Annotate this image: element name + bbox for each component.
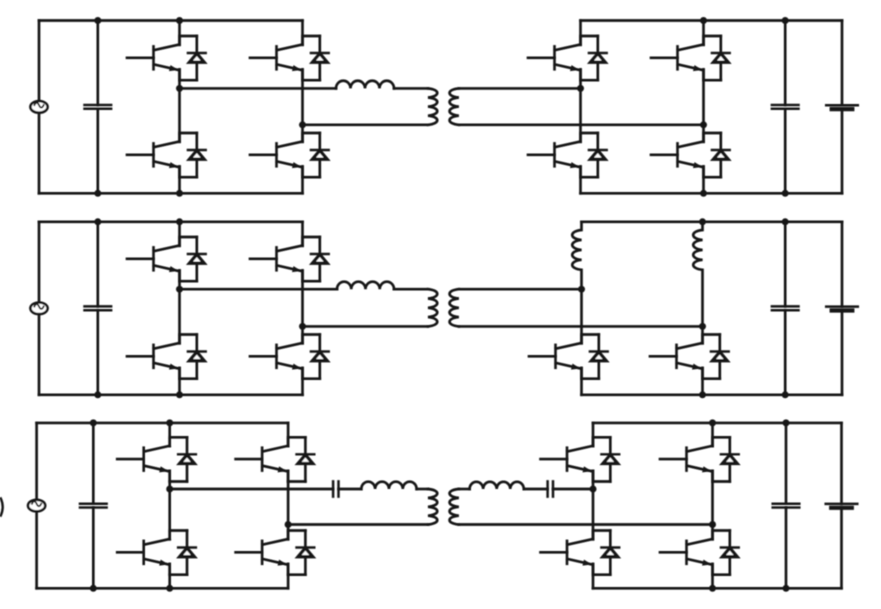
diode D8	[704, 133, 730, 177]
junction row2 left bridge leg A / bottom rail	[176, 391, 183, 398]
inductor L1	[336, 81, 394, 89]
junction row2 right leg A tap	[578, 286, 585, 293]
junction row1 left bridge leg A / bottom rail	[176, 190, 183, 197]
wire row2 output cap top lead	[784, 222, 787, 307]
diode D2	[180, 133, 206, 177]
junction row1 right leg B tap	[700, 121, 707, 128]
wire row1 right bridge leg A leg upper	[579, 21, 582, 45]
igbt Q9	[127, 239, 180, 281]
transformer T3 primary winding	[428, 489, 437, 525]
wire row2 primary lower link	[303, 325, 429, 328]
junction row2 leg A midpoint tap	[176, 286, 183, 293]
junction row2 right leg B / top rail	[699, 218, 706, 225]
transformer T2 primary winding	[428, 289, 437, 326]
wire row3 series cap to inductor	[339, 488, 362, 491]
wire row1 secondary upper link	[459, 87, 581, 90]
wire row3 output cap bottom lead	[785, 508, 788, 589]
transformer T1 secondary winding	[450, 88, 459, 124]
junction row1 output cap / bottom rail	[782, 190, 789, 197]
wire row1 left bridge leg A leg upper	[178, 21, 181, 45]
junction row3 right leg B tap	[709, 521, 716, 528]
wire row2 right leg A to lower switch	[580, 289, 583, 343]
junction row2 right leg B / bottom rail	[699, 391, 706, 398]
igbt Q22	[541, 533, 594, 575]
diode D6	[581, 133, 607, 177]
wire row2 right top rail	[582, 220, 843, 223]
igbt Q19	[236, 439, 289, 481]
ac/dc source V3	[28, 500, 45, 512]
wire row3 inductor to series cap	[524, 488, 548, 491]
junction row2 output cap / top rail	[782, 218, 789, 225]
wire row1 right bridge leg A leg middle	[579, 70, 582, 142]
wire row1 left bridge leg B leg lower	[301, 167, 304, 194]
junction row3 input cap / top rail	[90, 419, 97, 426]
wire row3 series cap to bridge	[553, 488, 593, 491]
junction row2 input cap / bottom rail	[94, 391, 101, 398]
junction row3 leg A midpoint tap	[166, 486, 173, 493]
diode D9	[180, 237, 206, 281]
wire row3 left bridge leg A leg middle	[168, 471, 171, 540]
wire row1 battery top lead	[841, 21, 844, 106]
junction row1 output cap / top rail	[782, 17, 789, 24]
diode D23	[713, 437, 739, 481]
wire row3 right bridge leg B leg upper	[711, 423, 714, 446]
wire row3 inductor to primary winding	[417, 488, 428, 491]
wire row2 secondary lower link	[459, 325, 703, 328]
igbt Q20	[236, 533, 289, 575]
igbt Q13	[529, 337, 582, 379]
wire row3 source bottom lead	[35, 511, 38, 588]
wire row2 output cap bottom lead	[784, 310, 787, 395]
diode D18	[170, 531, 196, 575]
diode D20	[288, 531, 314, 575]
junction row3 right leg B / bottom rail	[709, 585, 716, 592]
battery B3	[826, 504, 858, 508]
wire row1 primary lower link	[303, 123, 429, 126]
wire row1 input cap top lead	[96, 21, 99, 106]
wire row1 source bottom lead	[38, 113, 41, 194]
wire row3 left bridge leg A leg upper	[168, 423, 171, 446]
wire row1 inductor to primary winding	[394, 87, 428, 90]
wire row3 source top lead	[35, 423, 38, 500]
igbt Q11	[250, 239, 303, 281]
wire row2 right leg B to lower switch	[701, 326, 704, 343]
wire row3 right bridge leg B leg lower	[711, 564, 714, 588]
diode D22	[593, 531, 619, 575]
igbt Q12	[250, 337, 303, 379]
junction row3 output cap / bottom rail	[783, 585, 790, 592]
wire row3 input cap bottom lead	[92, 508, 95, 589]
igbt Q18	[117, 533, 170, 575]
wire row3 left bottom rail	[37, 587, 289, 590]
wire row3 right bridge leg A leg upper	[592, 423, 595, 446]
junction row1 input cap / bottom rail	[94, 190, 101, 197]
wire row1 right bridge leg B leg upper	[702, 21, 705, 45]
wire row3 right bridge leg A leg lower	[592, 564, 595, 588]
wire row2 left top rail	[39, 220, 303, 223]
junction row2 leg B midpoint tap	[299, 323, 306, 330]
diode D19	[288, 437, 314, 481]
diode D3	[303, 36, 329, 80]
inductor L3b	[470, 482, 524, 489]
figure label fragment ')'	[1, 499, 3, 516]
wire row1 right bridge leg A leg lower	[579, 167, 582, 194]
wire row1 left bridge leg B leg upper	[301, 21, 304, 45]
igbt Q3	[250, 38, 303, 80]
input capacitor C1	[85, 105, 112, 109]
junction row3 left bridge leg A / bottom rail	[166, 585, 173, 592]
wire row2 left bridge leg B leg middle	[301, 271, 304, 344]
wire row3 right bridge leg B leg middle	[711, 471, 714, 540]
ac/dc source V2	[30, 303, 47, 315]
transformer T1 primary winding	[428, 88, 437, 124]
wire row3 right bridge leg A leg middle	[592, 471, 595, 540]
igbt Q4	[250, 135, 303, 177]
wire row1 right bridge leg B leg lower	[702, 167, 705, 194]
wire row3 left top rail	[37, 422, 289, 425]
wire row3 battery bottom lead	[840, 508, 843, 589]
junction row1 right leg B / top rail	[700, 17, 707, 24]
junction row3 right leg B / top rail	[709, 419, 716, 426]
input capacitor C3	[80, 504, 107, 508]
igbt Q24	[660, 533, 713, 575]
wire row2 left bridge leg B leg upper	[301, 222, 304, 246]
diode D7	[704, 36, 730, 80]
wire row2 inductor to primary winding	[394, 288, 428, 291]
igbt Q10	[127, 337, 180, 379]
output capacitor Co2	[772, 306, 799, 310]
inductor L2	[337, 282, 394, 290]
diode D11	[303, 237, 329, 281]
wire row1 right bridge leg B leg middle	[702, 70, 705, 142]
battery B2	[826, 307, 858, 311]
wire row2 left bridge leg A leg lower	[178, 368, 181, 395]
wire row3 left bridge leg B leg upper	[287, 423, 290, 446]
igbt Q1	[127, 38, 180, 80]
junction row2 output cap / bottom rail	[782, 391, 789, 398]
wire row2 primary upper link	[180, 288, 338, 291]
junction row1 leg A midpoint tap	[176, 85, 183, 92]
wire row1 output cap top lead	[784, 21, 787, 106]
wire row2 battery top lead	[841, 222, 844, 307]
wire row1 secondary lower link	[459, 123, 704, 126]
inductor L3a	[361, 482, 416, 489]
transformer T2 secondary winding	[450, 289, 459, 326]
igbt Q23	[660, 439, 713, 481]
wire row2 right bottom rail	[582, 393, 843, 396]
diode D12	[303, 335, 329, 379]
series capacitor Cs3a	[333, 481, 338, 496]
wire row3 left bridge leg A leg lower	[168, 564, 171, 588]
igbt Q7	[651, 38, 704, 80]
igbt Q14	[650, 337, 703, 379]
junction row2 left bridge leg A / top rail	[176, 218, 183, 225]
junction row2 right leg B tap	[699, 323, 706, 330]
wire row3 secondary lower link	[459, 523, 713, 526]
junction row3 left bridge leg A / top rail	[166, 419, 173, 426]
igbt Q21	[541, 439, 594, 481]
diode D21	[593, 437, 619, 481]
wire row3 primary lower link	[288, 523, 428, 526]
diode D24	[713, 531, 739, 575]
wire row1 primary upper link	[180, 87, 337, 90]
diode D17	[170, 437, 196, 481]
junction row1 right leg B / bottom rail	[700, 190, 707, 197]
wire row1 right top rail	[581, 19, 843, 22]
wire row3 primary upper link	[170, 488, 333, 491]
wire row2 input cap bottom lead	[96, 310, 99, 395]
wire row2 secondary upper link	[459, 288, 582, 291]
igbt Q2	[127, 135, 180, 177]
wire row2 input cap top lead	[96, 222, 99, 307]
junction row1 leg B midpoint tap	[299, 121, 306, 128]
igbt Q5	[528, 38, 581, 80]
wire row3 left bridge leg B leg middle	[287, 471, 290, 540]
igbt Q17	[117, 439, 170, 481]
wire row2 right leg B emitter to rail	[701, 368, 704, 395]
diode D10	[180, 335, 206, 379]
wire row2 source bottom lead	[38, 314, 41, 395]
battery B1	[826, 105, 858, 109]
junction row1 left bridge leg A / top rail	[176, 17, 183, 24]
wire row1 left top rail	[39, 19, 303, 22]
igbt Q6	[528, 135, 581, 177]
wire row3 output cap top lead	[785, 423, 788, 504]
wire row3 right top rail	[593, 422, 842, 425]
junction row1 input cap / top rail	[94, 17, 101, 24]
output capacitor Co3	[773, 504, 800, 508]
wire row2 left bridge leg A leg middle	[178, 271, 181, 344]
wire row1 left bottom rail	[39, 192, 303, 195]
inductor L2b (leg B)	[693, 222, 702, 327]
junction row1 right leg A tap	[577, 85, 584, 92]
wire row3 secondary upper link	[459, 488, 470, 491]
junction row2 input cap / top rail	[94, 218, 101, 225]
diode D14	[703, 335, 729, 379]
wire row3 left bridge leg B leg lower	[287, 564, 290, 588]
diode D13	[582, 335, 608, 379]
wire row2 left bridge leg B leg lower	[301, 368, 304, 395]
diode D4	[303, 133, 329, 177]
wire row3 right bottom rail	[593, 587, 842, 590]
series capacitor Cs3b	[548, 481, 553, 496]
wire row1 left bridge leg A leg lower	[178, 167, 181, 194]
wire row3 battery top lead	[840, 423, 843, 504]
junction row3 input cap / bottom rail	[90, 585, 97, 592]
junction row3 output cap / top rail	[783, 419, 790, 426]
wire row3 input cap top lead	[92, 423, 95, 504]
wire row2 source top lead	[38, 222, 41, 303]
output capacitor Co1	[772, 105, 799, 109]
igbt Q8	[651, 135, 704, 177]
junction row3 right leg A tap	[590, 486, 597, 493]
wire row1 source top lead	[38, 21, 41, 102]
wire row2 left bridge leg A leg upper	[178, 222, 181, 246]
wire row2 left bottom rail	[39, 393, 303, 396]
transformer T3 secondary winding	[450, 489, 459, 525]
diode D5	[581, 36, 607, 80]
wire row1 left bridge leg A leg middle	[178, 70, 181, 142]
ac/dc source V1	[30, 101, 47, 113]
wire row2 right leg A emitter to rail	[580, 368, 583, 395]
diode D1	[180, 36, 206, 80]
wire row1 battery bottom lead	[841, 109, 844, 193]
junction row3 leg B midpoint tap	[285, 521, 292, 528]
wire row1 right bottom rail	[581, 192, 843, 195]
wire row1 left bridge leg B leg middle	[301, 70, 304, 142]
input capacitor C2	[85, 306, 112, 310]
inductor L2a (leg A)	[572, 222, 581, 289]
wire row2 battery bottom lead	[841, 311, 844, 395]
wire row1 input cap bottom lead	[96, 109, 99, 194]
wire row1 output cap bottom lead	[784, 109, 787, 194]
